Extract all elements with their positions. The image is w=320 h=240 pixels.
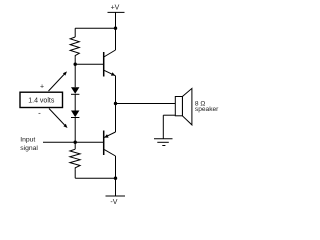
svg-text:-: - <box>38 109 41 118</box>
svg-text:1.4 volts: 1.4 volts <box>28 97 55 104</box>
svg-text:Input: Input <box>20 137 35 144</box>
svg-text:speaker: speaker <box>195 106 219 113</box>
svg-text:signal: signal <box>20 145 38 152</box>
svg-text:-V: -V <box>110 199 117 206</box>
svg-text:+: + <box>40 84 44 91</box>
svg-text:+V: +V <box>111 5 120 12</box>
